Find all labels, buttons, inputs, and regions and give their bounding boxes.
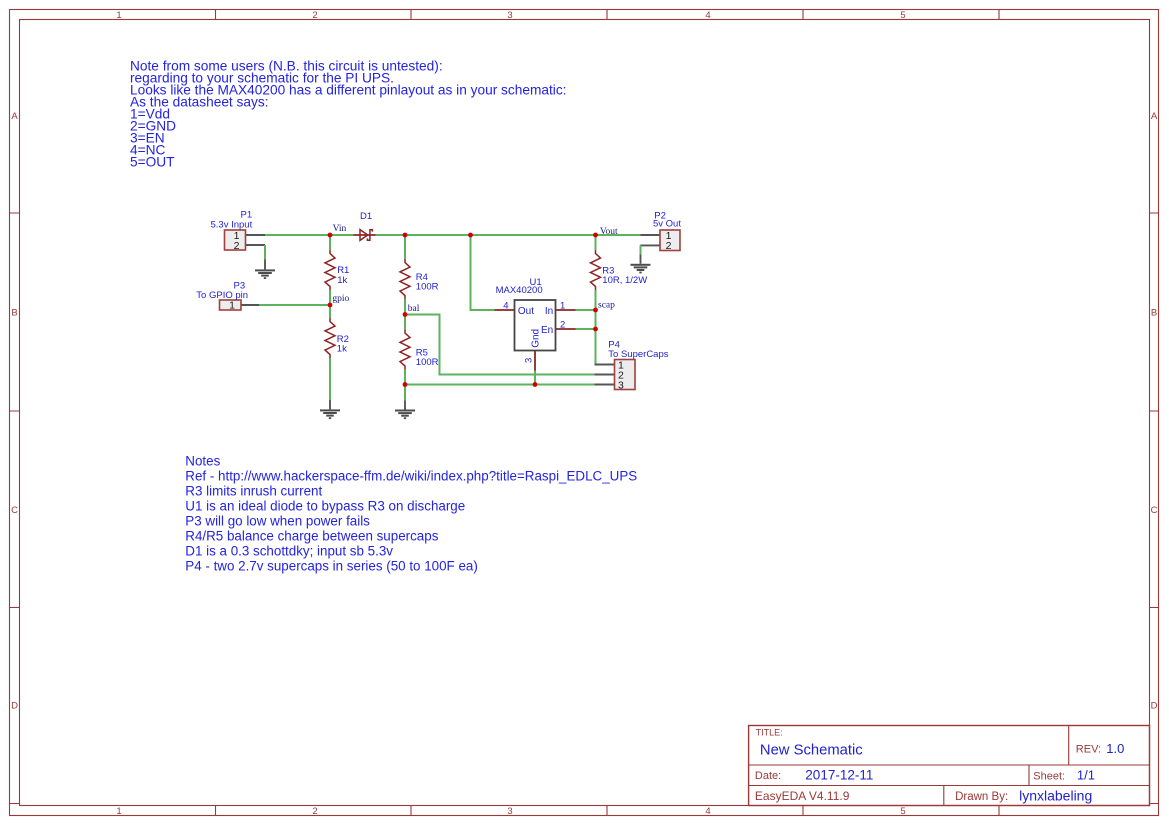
svg-text:D1: D1 (360, 211, 372, 222)
svg-text:Gnd: Gnd (530, 329, 541, 348)
wire top rail down to R4 (404, 235, 406, 259)
svg-text:P3 will go low when power fail: P3 will go low when power fails (185, 513, 370, 528)
wire R5 bottom down to ground (404, 385, 406, 401)
wire P3 to gpio node (259, 304, 330, 306)
svg-text:lynxlabeling: lynxlabeling (1019, 787, 1092, 803)
svg-text:1.0: 1.0 (1106, 741, 1124, 756)
wire U1 Gnd pin to bottom rail (534, 371, 536, 385)
svg-text:2: 2 (234, 240, 240, 252)
svg-text:Vin: Vin (333, 224, 347, 234)
svg-text:D: D (11, 701, 18, 712)
wire U1 In pin to scap node (576, 309, 596, 311)
svg-text:Sheet:: Sheet: (1033, 771, 1065, 783)
top ruler ticks (216, 10, 1000, 20)
svg-text:5.3v Input: 5.3v Input (211, 220, 253, 231)
left ruler ticks (10, 213, 20, 804)
resistor R2 (325, 318, 335, 358)
top note text block (130, 58, 566, 169)
diode D1 (354, 230, 376, 241)
svg-text:2: 2 (560, 320, 565, 331)
node junction U1 out column (468, 233, 473, 238)
svg-text:TITLE:: TITLE: (756, 728, 783, 738)
top ruler numbers (116, 10, 905, 21)
svg-text:3: 3 (618, 379, 624, 391)
svg-text:5: 5 (900, 10, 905, 21)
wire P1 pin2 down to ground (264, 245, 266, 260)
svg-text:2017-12-11: 2017-12-11 (805, 768, 873, 783)
wire R2 down to ground (329, 358, 331, 400)
svg-text:2: 2 (312, 10, 317, 21)
svg-text:1k: 1k (337, 275, 347, 286)
title block Sheet cell divider (1028, 765, 1030, 786)
resistor R4 (400, 259, 410, 299)
right ruler letters (1151, 111, 1158, 712)
wire gpio down to R2 (329, 305, 331, 318)
ground below P2 (631, 254, 651, 273)
right ruler ticks (1150, 213, 1159, 804)
svg-text:scap: scap (598, 300, 615, 310)
svg-text:Ref - http://www.hackerspace-f: Ref - http://www.hackerspace-ffm.de/wiki… (185, 468, 637, 483)
svg-text:5=OUT: 5=OUT (130, 154, 175, 169)
wire R1 to gpio node (329, 290, 331, 305)
svg-text:3: 3 (507, 10, 512, 21)
svg-text:gpio: gpio (332, 294, 349, 304)
node bal junction (403, 312, 408, 317)
ground below P1 (255, 260, 275, 280)
op-amp U1 box (515, 300, 556, 351)
svg-text:A: A (11, 111, 18, 122)
svg-text:2: 2 (312, 806, 317, 817)
svg-text:R3 limits inrush current: R3 limits inrush current (185, 483, 322, 498)
svg-text:U1 is an ideal diode to bypass: U1 is an ideal diode to bypass R3 on dis… (185, 498, 465, 513)
svg-text:10R, 1/2W: 10R, 1/2W (602, 275, 647, 286)
node Vout junction (593, 233, 598, 238)
svg-text:3: 3 (507, 806, 512, 817)
svg-text:B: B (11, 308, 17, 319)
wire U1 En pin to scap rail (576, 328, 596, 330)
svg-text:1k: 1k (337, 343, 347, 354)
svg-text:bal: bal (408, 304, 420, 314)
svg-text:1: 1 (560, 300, 565, 311)
svg-text:1: 1 (229, 300, 235, 312)
title block outer border (749, 726, 1150, 806)
svg-text:Out: Out (518, 306, 534, 317)
wire bal node to P4 pin2 (405, 315, 605, 375)
connector P4 pin stubs (595, 365, 615, 385)
bottom rail wire (405, 384, 605, 386)
svg-text:EasyEDA V4.11.9: EasyEDA V4.11.9 (755, 789, 850, 803)
wire P2 pin2 to ground (640, 245, 642, 254)
node gpio junction (328, 303, 333, 308)
connector P1 pin stubs (246, 235, 266, 245)
svg-text:1: 1 (116, 10, 121, 21)
svg-text:Date:: Date: (755, 770, 781, 782)
svg-text:5v Out: 5v Out (653, 219, 681, 230)
node R5 bottom junction (403, 382, 408, 387)
svg-text:100R: 100R (416, 357, 439, 368)
bottom ruler ticks (216, 806, 1000, 816)
svg-text:MAX40200: MAX40200 (496, 285, 543, 296)
title block row divider 1 (749, 764, 1150, 766)
svg-text:100R: 100R (416, 281, 439, 292)
node En rail junction (593, 327, 598, 332)
svg-text:2: 2 (666, 240, 672, 252)
connector P4 box (615, 360, 636, 390)
svg-text:To GPIO pin: To GPIO pin (196, 290, 248, 301)
svg-text:In: In (545, 306, 553, 317)
svg-text:Vout: Vout (600, 227, 618, 237)
title block REV cell divider (1068, 726, 1070, 766)
ground below R5 (395, 400, 415, 419)
svg-text:To SuperCaps: To SuperCaps (608, 349, 668, 360)
wire Vin down to R1 (329, 235, 331, 250)
connector P1 box (225, 230, 246, 250)
junction dots (drawn on top) (328, 233, 598, 387)
wire P1 pin1 to Vin node (265, 234, 330, 236)
notes text block (185, 453, 637, 573)
wire Vin node to D1 (330, 234, 354, 236)
title block Drawn By cell divider (943, 786, 945, 806)
wire R4 to bal node (404, 299, 406, 315)
wire scap down to P4 pin1 (595, 310, 597, 365)
wire R5 to bottom rail (404, 370, 406, 385)
svg-text:C: C (11, 505, 18, 516)
left ruler letters (11, 111, 18, 712)
wire down from top rail to U1 Out pin (471, 235, 495, 310)
svg-text:4: 4 (705, 10, 710, 21)
node Vin junction (328, 233, 333, 238)
connector P3 pin stub (241, 304, 259, 306)
bottom ruler numbers (116, 806, 905, 817)
node junction R4 top (403, 233, 408, 238)
svg-text:4: 4 (503, 301, 508, 312)
svg-text:C: C (1151, 505, 1158, 516)
connector P3 box (220, 300, 242, 310)
node U1 gnd rail junction (533, 382, 538, 387)
node scap junction (593, 308, 598, 313)
svg-text:R4/R5 balance charge between s: R4/R5 balance charge between supercaps (185, 528, 438, 543)
svg-text:Notes: Notes (185, 453, 220, 468)
svg-text:4: 4 (705, 806, 710, 817)
connector P2 box (660, 230, 680, 251)
svg-text:B: B (1151, 308, 1157, 319)
wire bal down to R5 (404, 315, 406, 330)
ground below R2 (320, 400, 340, 419)
svg-text:1/1: 1/1 (1077, 768, 1095, 783)
wire D1 to Vout rail (376, 234, 641, 236)
resistor R1 (325, 250, 335, 290)
svg-text:P4 - two 2.7v supercaps in ser: P4 - two 2.7v supercaps in series (50 to… (185, 558, 478, 573)
svg-text:5: 5 (900, 806, 905, 817)
resistor R5 (400, 330, 410, 370)
title block row divider 2 (749, 785, 1150, 787)
resistor R3 (591, 250, 601, 290)
svg-text:3: 3 (523, 358, 534, 363)
svg-text:En: En (541, 325, 553, 336)
svg-text:D1 is a 0.3 schottdky; input s: D1 is a 0.3 schottdky; input sb 5.3v (185, 543, 393, 558)
svg-text:1: 1 (116, 806, 121, 817)
svg-text:New Schematic: New Schematic (760, 743, 863, 759)
wire R3 to scap node (595, 290, 597, 310)
svg-text:A: A (1151, 111, 1158, 122)
svg-text:Drawn By:: Drawn By: (955, 791, 1008, 803)
op-amp U1 pin stubs (495, 310, 576, 371)
svg-text:D: D (1151, 701, 1158, 712)
wire Vout down to R3 (595, 235, 597, 250)
svg-text:REV:: REV: (1076, 743, 1101, 755)
connector P2 pin stubs (640, 235, 660, 245)
